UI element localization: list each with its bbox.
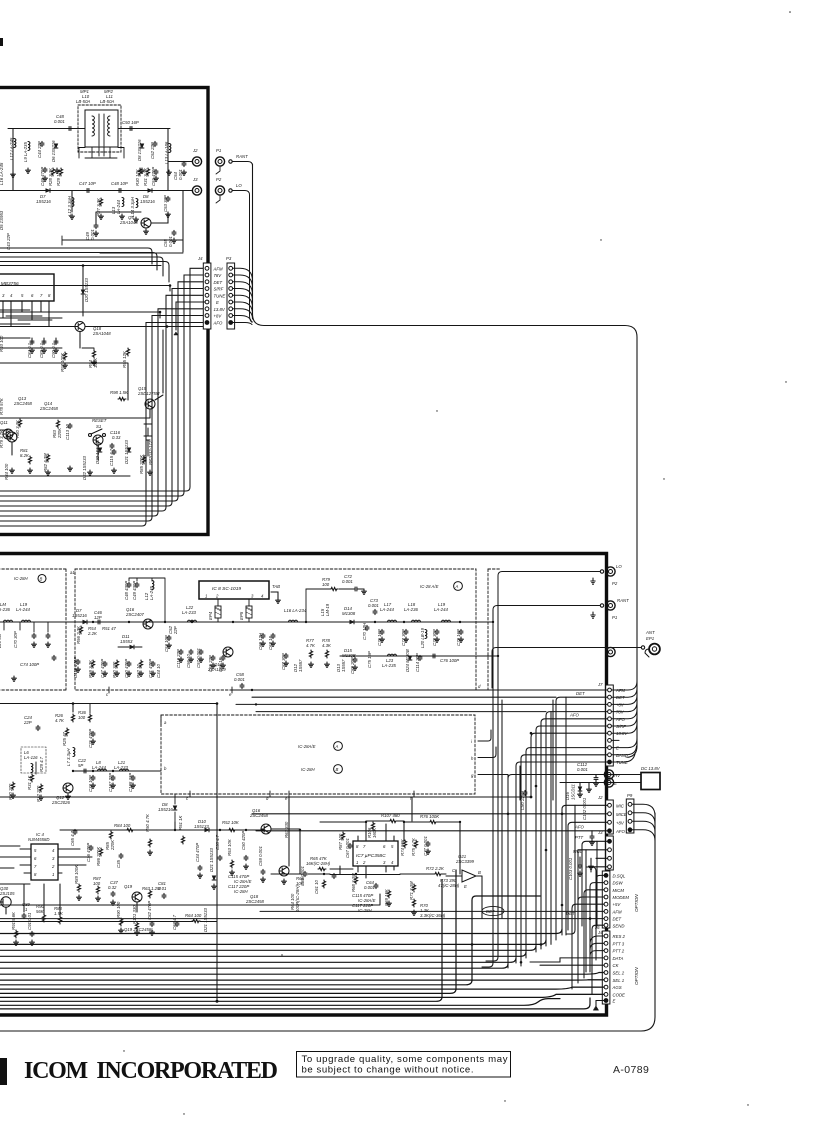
capacitor C59 [258,846,265,883]
svg-text:A: A [335,744,339,749]
svg-text:R86 270K: R86 270K [96,846,101,866]
resistor R95 [122,348,130,368]
arc CODE [556,993,604,995]
bus line 8 [0,979,604,981]
cable bundle frame from P3 to J7 [253,164,638,758]
svg-text:h: h [471,756,474,761]
capacitor C54 [173,161,186,180]
svg-text:4: 4 [52,848,55,853]
svg-text:P3: P3 [226,256,232,261]
svg-text:SEND: SEND [613,923,625,928]
svg-text:22P: 22P [23,720,32,725]
wire SEND row [592,925,604,994]
svg-text:AGS: AGS [612,985,622,990]
svg-text:B: B [40,577,43,582]
svg-text:5: 5 [391,844,394,849]
left column resistors [76,625,83,644]
svg-text:EP4: EP4 [208,611,213,620]
bus line 7 [0,973,604,975]
diode D8 [137,139,144,161]
transistor Q12 [51,783,73,805]
capacitor C53 [163,195,170,212]
svg-text:R51 47: R51 47 [102,626,116,631]
wire DSW row [590,883,604,972]
capacitor C48 [54,114,73,131]
svg-text:IC-28H: IC-28H [358,908,373,913]
wire DET opt row [0,918,604,920]
svg-text:100: 100 [78,715,86,720]
svg-text:C36 470P: C36 470P [86,843,91,862]
svg-text:C50 420P: C50 420P [241,831,246,850]
capacitor C47 [79,181,96,193]
resistor R25 + coil L7 [62,728,69,746]
jack on border for ANT [606,647,615,656]
svg-text:R91 5.6K: R91 5.6K [11,911,16,930]
capacitor C102 [582,797,594,845]
opamp IC4 [16,832,70,880]
resistor R69 [384,888,391,906]
svg-text:RES 2: RES 2 [613,934,626,939]
J4 pin labels [213,266,226,325]
wire MIC row [562,805,608,935]
capacitor C51 [151,167,158,186]
DC 13.8V jack box [641,766,661,790]
wire MUD row [578,850,608,920]
svg-text:C46 470P: C46 470P [40,167,45,186]
svg-text:1.5K: 1.5K [54,911,64,916]
option2 arcs [530,936,604,994]
resistor R68 [351,873,358,892]
svg-text:E: E [613,999,616,1004]
svg-text:C74 100P: C74 100P [20,662,39,667]
svg-text:7: 7 [34,864,37,869]
svg-text:Q19 2SC2458L: Q19 2SC2458L [124,927,154,932]
svg-text:Q11: Q11 [0,420,8,425]
resistor R21 [27,774,34,790]
wire AFO row [541,719,608,949]
svg-text:DC 13.8V: DC 13.8V [641,766,661,771]
svg-text:MICE: MICE [616,812,627,817]
wire rows under IC9 [0,310,52,324]
wire ANT left [492,648,641,689]
resistor R82 [43,453,50,472]
svg-text:R90 100: R90 100 [116,901,121,918]
wires to bus [0,921,217,923]
svg-text:4: 4 [391,860,394,865]
svg-text:C34 10: C34 10 [156,664,161,678]
svg-text:C78 30P: C78 30P [432,629,437,646]
wire P2 to bundle [232,191,252,323]
resistor R101 [132,905,139,930]
resistor R106 [367,822,377,838]
svg-text:B: B [336,767,339,772]
svg-text:2.2K: 2.2K [87,631,98,636]
svg-text:D5 1S953: D5 1S953 [0,210,4,230]
svg-text:4.3K: 4.3K [322,643,332,648]
svg-text:P9: P9 [627,793,633,798]
svg-text:C87 30P: C87 30P [281,653,286,670]
svg-text:R76 100K: R76 100K [420,814,440,819]
svg-text:C103 0.001: C103 0.001 [568,857,573,880]
J4 harness down to bottom corner [0,268,205,526]
coil L16 [284,608,307,622]
coil L13 [164,141,171,164]
svg-text:C33 10P: C33 10P [88,775,93,792]
svg-text:R78 57K: R78 57K [0,397,4,415]
row extensions DET/78V [252,697,556,711]
transistor Q19b [124,884,142,902]
resistor R81 [20,448,32,464]
svg-text:2SC2407: 2SC2407 [125,612,145,617]
capacitor C64 [364,880,378,890]
svg-text:OPTION: OPTION [634,967,639,985]
capacitor C24 [23,715,40,731]
svg-text:R28 3.3K: R28 3.3K [48,167,53,186]
wire Q5 row [72,191,183,253]
capacitor C80 [520,790,527,810]
svg-text:R89 100K: R89 100K [74,864,79,884]
svg-text:SEL 2: SEL 2 [613,971,625,976]
svg-text:RESET: RESET [92,418,107,423]
svg-text:L12 3.3µH: L12 3.3µH [67,195,72,216]
J2 pin labels [615,803,627,834]
svg-text:C34 470P: C34 470P [195,843,200,862]
wire E row [526,748,608,958]
svg-text:S/RF: S/RF [214,287,224,292]
resistor R87b [338,832,345,850]
capacitor C91 [27,912,34,937]
svg-text:D6 1S5216: D6 1S5216 [51,140,56,162]
svg-text:Q19: Q19 [124,884,133,889]
resistor R73 [438,878,460,888]
bus line 4 [0,952,526,956]
svg-text:1S5133: 1S5133 [194,824,209,829]
arc SEL2 [599,972,604,974]
switch S1 RESET [89,418,107,437]
svg-text:0.001: 0.001 [178,169,183,180]
capacitor C52b [168,626,178,635]
ground below LO [591,578,595,584]
resistor R86b [96,846,103,866]
bus line 1 [0,929,562,934]
svg-text:0.001: 0.001 [364,885,375,890]
capacitor C67 [345,838,352,858]
resistor R89 [74,864,81,892]
wire MICE row [252,813,608,815]
svg-text:A: A [455,584,459,589]
caps right C69 [350,657,357,674]
bus line 2 [0,940,546,944]
resistor R90b [116,901,123,926]
arc PTT3 [590,943,604,950]
riser f [552,700,554,800]
resistor R71 [409,881,416,900]
jack J3 [192,177,202,195]
svg-text:1: 1 [205,594,208,599]
svg-text:5: 5 [34,848,37,853]
svg-text:AFO: AFO [574,825,584,830]
svg-text:100: 100 [322,582,330,587]
wire HV [560,774,641,776]
svg-text:R85 220K: R85 220K [139,454,144,474]
wire Q18 row [0,348,94,350]
IF wire right extension [476,610,493,622]
transistor Q18 [0,322,203,349]
svg-text:1: 1 [52,872,55,877]
svg-text:+5V: +5V [613,902,622,907]
svg-text:MIC: MIC [616,803,625,808]
svg-text:100R(IC-28H): 100R(IC-28H) [295,885,300,912]
svg-text:6: 6 [31,293,34,298]
riser a [482,680,493,967]
svg-text:To upgrade quality, some compo: To upgrade quality, some components may [302,1054,508,1065]
coil L19 [434,602,451,622]
svg-text:J4: J4 [197,256,203,261]
svg-text:1S5216: 1S5216 [36,199,51,204]
resistor R52 [222,820,240,832]
capacitor C116 [110,430,121,449]
svg-text:7: 7 [363,844,366,849]
option1 pin labels [612,873,630,928]
transistor Q14 [39,401,103,445]
coil L18 [404,602,421,622]
resistor R51 [178,815,185,844]
resistor R91 [11,911,18,938]
svg-text:C50 16P: C50 16P [122,120,139,125]
svg-text:MICM: MICM [613,888,625,893]
svg-text:C76 100P: C76 100P [440,658,459,663]
dashed box right side partial [487,569,489,690]
svg-text:1S557: 1S557 [341,659,346,672]
svg-text:2SC2458: 2SC2458 [245,899,265,904]
capacitor C63 [172,914,179,930]
resistor R28 [48,167,55,186]
connector J4 [197,256,211,329]
svg-text:EP1: EP1 [646,636,655,641]
svg-text:3: 3 [52,856,55,861]
svg-text:6: 6 [383,844,386,849]
resistor R30 [135,168,142,186]
caps C48/C49 above [124,581,131,600]
svg-text:PTT 3: PTT 3 [613,941,625,946]
svg-text:C110 470P: C110 470P [73,657,78,678]
svg-text:L14 3.3µH: L14 3.3µH [130,196,135,217]
resistor R90 [36,904,46,922]
svg-text:R53 10K: R53 10K [227,838,232,856]
diode D16 [565,783,582,801]
svg-text:b: b [164,766,167,771]
svg-text:HV: HV [614,773,621,778]
wire HV feed [508,775,560,969]
wire DET long [0,894,380,905]
wire RANT left [493,606,600,681]
connector P3 [226,256,235,329]
capacitor C89 [22,902,30,919]
diode D21c [203,907,208,932]
wire AFO J2 row [256,830,608,832]
coil L21 [114,760,129,771]
svg-text:LB-50A: LB-50A [100,99,114,104]
capacitor C52 [150,141,157,159]
diode D22 [95,439,102,464]
caps under Q16 [164,635,171,652]
main wire into filter [8,128,170,130]
svg-text:L16 LA-245: L16 LA-245 [0,162,4,185]
bus line 12 [0,994,604,997]
svg-text:PTT 2: PTT 2 [613,949,625,954]
svg-text:4.7K: 4.7K [55,718,65,723]
wire J2 stub [168,162,192,191]
svg-text:RANT: RANT [236,154,248,159]
diode D6 [51,140,58,162]
resistor R78 [0,397,4,415]
svg-text:R64 100: R64 100 [185,913,202,918]
svg-text:LA-236: LA-236 [0,607,10,612]
ground row audio [14,940,19,945]
logo bar [0,1058,7,1085]
heavy border of MAIN unit (left/bottom cut) [0,554,607,1016]
diode D21b [209,847,216,880]
svg-text:2SJ105: 2SJ105 [0,891,15,896]
capacitor C73 [368,598,379,615]
svg-text:4: 4 [261,594,264,599]
transistor Q18b [245,866,289,904]
coil L22 [182,605,197,622]
svg-text:220K: 220K [110,839,115,851]
svg-text:C82 470P: C82 470P [147,901,152,920]
svg-text:C77 30P: C77 30P [401,629,406,646]
svg-text:C110 22P: C110 22P [176,649,181,668]
svg-text:J2: J2 [597,795,603,800]
svg-text:R56 2.2K: R56 2.2K [76,625,81,644]
resistor R75 [411,837,418,856]
grounds extra [11,172,16,177]
svg-text:MODEM: MODEM [613,895,630,900]
svg-text:P2: P2 [216,177,222,182]
dashed box A/B selector [161,715,475,794]
svg-text:C108 33P: C108 33P [128,773,133,792]
svg-text:LA-233: LA-233 [182,610,196,615]
resistor R72 [400,866,446,876]
svg-text:d: d [478,684,481,689]
svg-text:AFO: AFO [615,829,625,834]
svg-text:J2: J2 [192,148,198,153]
svg-text:J3: J3 [192,177,198,182]
capacitor C45 [111,181,128,193]
buffer Q21 [446,854,482,889]
svg-text:L20 30P: L20 30P [0,632,2,648]
svg-text:2SA1048: 2SA1048 [92,331,111,336]
capacitor C77b [423,836,430,856]
wire MICM row [584,890,604,978]
svg-text:D8 1S5216: D8 1S5216 [137,139,142,161]
capacitor C44 [37,141,44,158]
ground at J4 E [174,332,178,335]
capacitor C113 [65,423,72,440]
bus line 9 [0,896,540,985]
svg-text:2SA1359: 2SA1359 [207,667,226,672]
bus lines left to edge [0,870,604,1009]
svg-text:TAB: TAB [272,584,280,589]
svg-text:LB-50A: LB-50A [76,99,90,104]
svg-text:3: 3 [2,293,5,298]
svg-text:R82 4.7M: R82 4.7M [43,453,48,472]
svg-text:C67 0.001: C67 0.001 [345,838,350,858]
option2 pin labels [612,934,626,1004]
capacitor C61 [314,873,336,894]
wire AFM row [232,689,608,691]
wire VCO out [73,770,161,772]
svg-text:D24 M130B: D24 M130B [405,649,410,672]
extra harness risers [551,697,597,972]
transistor Q5 [119,215,151,234]
capacitor C115b [352,893,376,913]
svg-text:AFM: AFM [612,909,622,914]
svg-text:RANT: RANT [617,598,629,603]
diode D10 [194,819,209,832]
capacitor C46 [40,167,47,186]
capacitor C21 [88,729,95,748]
wire TUNE row [516,762,608,963]
svg-text:78V: 78V [214,273,223,278]
capacitor C76 [431,654,459,663]
svg-text:+8V: +8V [214,314,223,319]
svg-text:C53 10P: C53 10P [164,635,169,652]
bus line 5 [0,958,516,962]
resistor R98 [110,390,129,401]
coil L15 + diode D14 [320,603,330,616]
capacitor C103b [82,455,87,480]
arc CK [540,964,604,966]
resistor R94 [88,350,98,368]
riser d [519,766,521,800]
svg-text:LM-19: LM-19 [325,603,330,616]
svg-text:S1: S1 [96,424,102,429]
svg-text:C21 470P: C21 470P [88,729,93,748]
wire E to DC jack [560,782,641,784]
coil L12 [67,195,74,216]
svg-text:C61 10: C61 10 [314,880,319,894]
wire LO left [498,572,600,661]
resistor R50 [145,813,152,855]
filter MP1/MP2 dashed box [76,89,121,158]
wire 78V row [546,712,608,946]
resistor R97 [60,352,67,372]
svg-text:220K: 220K [57,427,62,439]
svg-text:IC-28H: IC-28H [234,889,249,894]
svg-text:4.7K: 4.7K [306,643,316,648]
svg-text:1S5216: 1S5216 [72,613,87,618]
svg-text:NJM4558D: NJM4558D [28,837,50,842]
svg-text:13.8V: 13.8V [214,307,226,312]
capacitor C84 [27,339,34,358]
wire J3 pin stubs [591,858,608,872]
svg-text:IC 8 SC-1019: IC 8 SC-1019 [212,586,241,592]
jack J2 [192,148,202,166]
J7 pin labels [615,688,628,765]
transistor Q16b [249,808,271,834]
wire MODEM row [578,897,604,983]
capacitor C33 [88,775,95,792]
P1/P2 pigtails [216,167,220,174]
svg-text:C70 12H: C70 12H [362,622,367,640]
J4 E pin ground wire [176,302,205,330]
capacitor C114 [415,653,422,672]
svg-text:E: E [216,300,219,305]
capacitor C81 [158,881,167,899]
pad EP4 [208,599,221,622]
opamp IC7 [353,824,398,878]
